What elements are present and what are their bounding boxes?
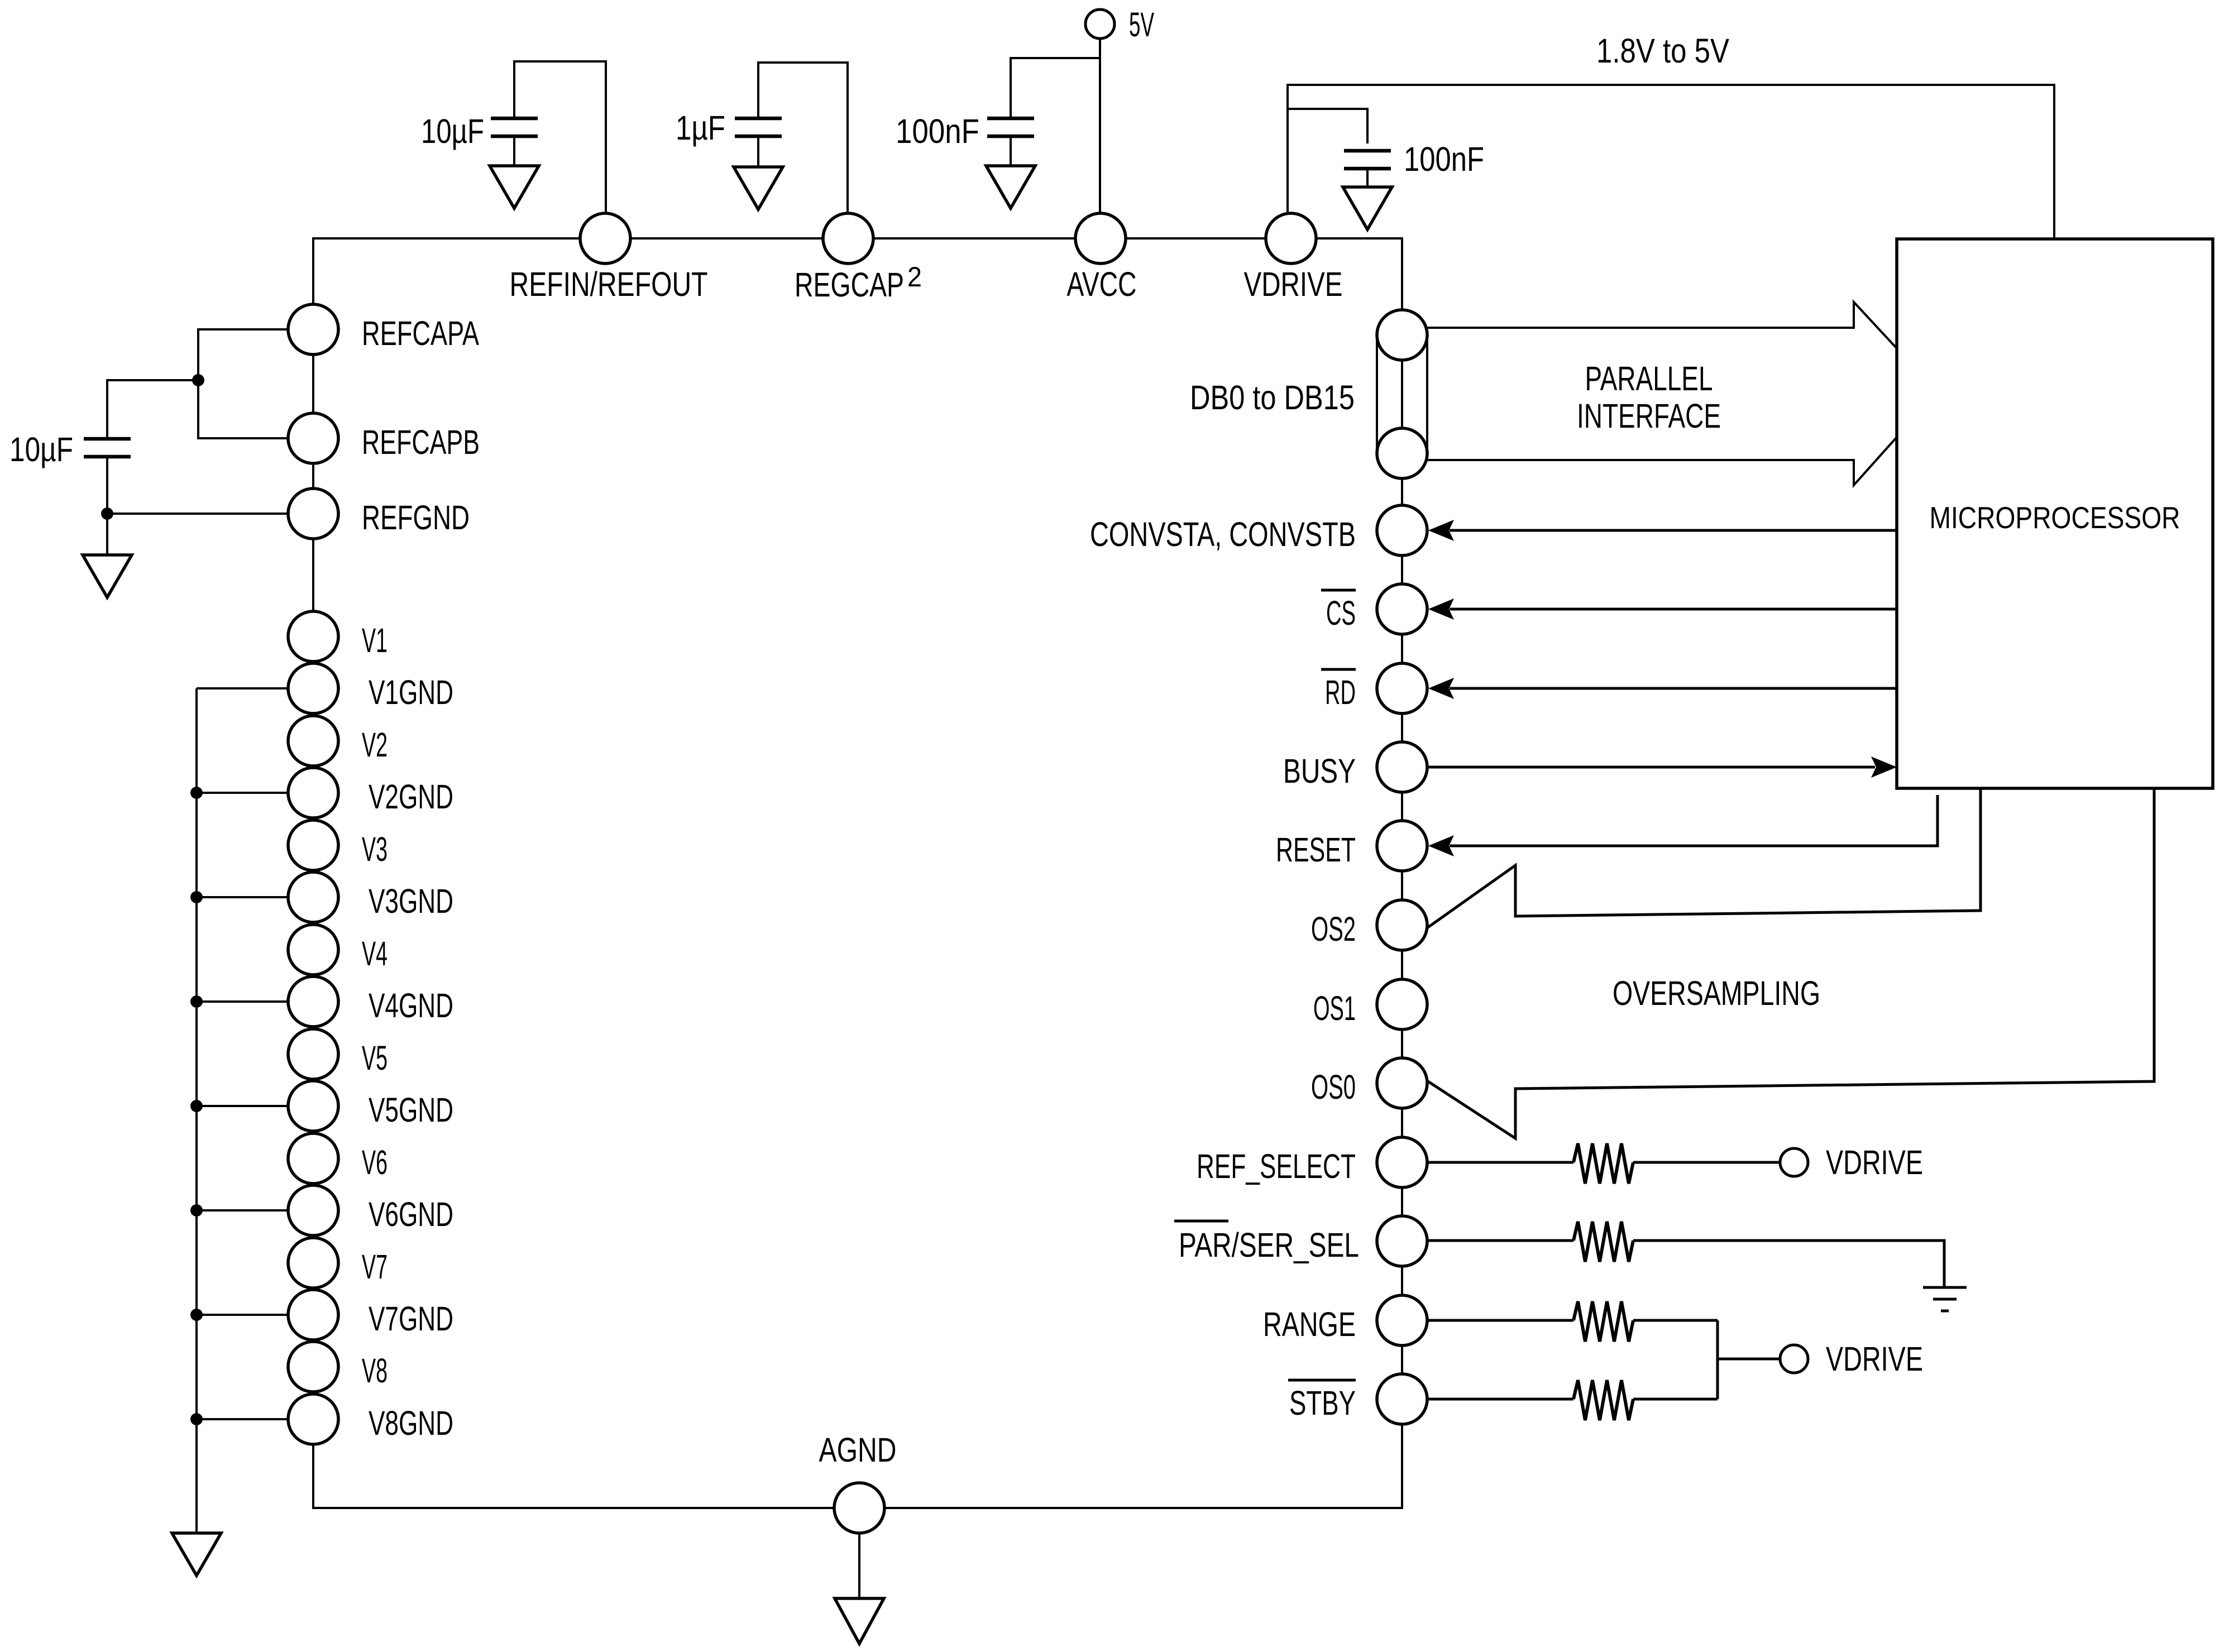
pin V6GND [288, 1185, 338, 1236]
ground (C2) [734, 167, 783, 209]
svg-text:V6GND: V6GND [369, 1195, 453, 1233]
pin DB0 [1377, 310, 1427, 360]
arrowhead RD [1428, 678, 1454, 699]
pin V3 [288, 820, 338, 870]
pin REFCAPB [288, 413, 338, 463]
svg-text:10µF: 10µF [9, 430, 73, 468]
wire DB bus right tangent [1426, 335, 1428, 453]
junction V3GND [190, 891, 203, 903]
capacitor C2 1uF (REGCAP) [735, 118, 782, 136]
wire CS line from microprocessor [1450, 608, 1897, 611]
svg-text:100nF: 100nF [1404, 140, 1484, 178]
wire V5GND stub [197, 1105, 288, 1107]
pin V1 [288, 611, 338, 662]
wire V8GND stub [197, 1418, 288, 1420]
pin DB15 [1377, 428, 1427, 478]
overline RD [1321, 668, 1356, 671]
pin V5 [288, 1029, 338, 1079]
pin RESET [1377, 821, 1427, 871]
svg-text:REFIN/REFOUT: REFIN/REFOUT [510, 265, 708, 303]
svg-text:VDRIVE: VDRIVE [1244, 265, 1343, 303]
wire joint to VDRIVE terminal [1718, 1358, 1780, 1361]
wire resistor to earth ground [1633, 1241, 1944, 1287]
pin OS0 [1377, 1058, 1427, 1108]
resistor R1 (REF_SELECT pullup) [1573, 1143, 1633, 1184]
IC outline (ADC body) [313, 238, 1402, 1508]
wire V6GND stub [197, 1209, 288, 1212]
ground (AGND) [835, 1598, 884, 1644]
wire VDRIVE 100nF cap branch [1288, 109, 1367, 143]
arrowhead BUSY (into microprocessor) [1871, 756, 1897, 778]
svg-text:V3: V3 [362, 830, 388, 868]
svg-text:RANGE: RANGE [1263, 1305, 1356, 1343]
pin V4GND [288, 976, 338, 1027]
svg-text:V2: V2 [362, 726, 388, 764]
arrowhead CONVSTA [1428, 520, 1454, 541]
svg-text:REF_SELECT: REF_SELECT [1197, 1147, 1356, 1185]
svg-text:V6: V6 [362, 1143, 388, 1181]
pin CONVSTA/CONVSTB [1377, 505, 1427, 556]
svg-text:REFCAPB: REFCAPB [362, 423, 480, 461]
svg-text:STBY: STBY [1289, 1384, 1356, 1422]
pin V3GND [288, 872, 338, 922]
ground (C4) [1343, 187, 1392, 229]
wire VxGND bus [195, 688, 198, 1533]
wire OS0 bus to microprocessor [1427, 788, 2154, 1138]
wire DB bus left tangent [1376, 335, 1378, 453]
wire REFCAPA to REFCAPB [198, 329, 288, 438]
pin REGCAP [823, 213, 873, 264]
svg-text:DB0 to DB15: DB0 to DB15 [1190, 379, 1355, 416]
junction (REFCAP network) [192, 374, 204, 386]
pin V7 [288, 1238, 338, 1288]
wire parallel-interface bus arrow bottom [1427, 437, 1897, 485]
pin V1GND [288, 663, 338, 714]
wire junction to 10uF refcap [107, 380, 198, 439]
svg-text:V1GND: V1GND [369, 673, 453, 711]
pin STBY [1377, 1374, 1427, 1424]
wire V3GND stub [197, 896, 288, 898]
svg-text:V2GND: V2GND [369, 778, 453, 816]
pin REFGND [288, 489, 338, 539]
wire V4GND stub [197, 1000, 288, 1003]
resistor R2 (PAR/SER_SEL pulldown) [1573, 1222, 1633, 1262]
pin V7GND [288, 1290, 338, 1340]
wire 100nF cap to ground [1010, 136, 1012, 166]
wire 5V supply to AVCC [1099, 39, 1101, 213]
pin CS [1377, 584, 1427, 634]
wire OS2 bus to microprocessor [1427, 788, 1981, 928]
pin V8 [288, 1342, 338, 1392]
pin RANGE [1377, 1295, 1427, 1345]
svg-text:1.8V to 5V: 1.8V to 5V [1596, 32, 1729, 70]
pin V6 [288, 1133, 338, 1184]
pin REFCAPA [288, 304, 338, 355]
pin AGND [834, 1483, 884, 1533]
svg-text:OS0: OS0 [1311, 1068, 1356, 1106]
wire 10uF cap to ground [513, 136, 515, 166]
capacitor C4 100nF (VDRIVE) [1344, 151, 1391, 169]
pin REF_SELECT [1377, 1137, 1427, 1187]
overline STBY [1288, 1379, 1356, 1382]
overline PAR [1174, 1220, 1228, 1223]
wire 1uF cap to ground [757, 136, 759, 167]
pin OS2 [1377, 900, 1427, 950]
svg-text:AGND: AGND [819, 1431, 897, 1469]
svg-text:5V: 5V [1129, 6, 1154, 44]
svg-text:10µF: 10µF [421, 112, 484, 150]
svg-text:V7: V7 [362, 1248, 388, 1286]
wire REFGND to ground [107, 514, 288, 555]
pin REFIN/REFOUT [580, 213, 630, 264]
terminal 5V [1085, 9, 1114, 39]
wire AGND to ground [858, 1533, 860, 1598]
wire RD line from microprocessor [1450, 687, 1897, 690]
svg-text:VDRIVE: VDRIVE [1826, 1143, 1923, 1181]
wire 100nF cap to 5V line [1011, 58, 1100, 118]
svg-text:RESET: RESET [1276, 831, 1356, 869]
svg-text:REFCAPA: REFCAPA [362, 314, 479, 352]
wire STBY resistor to joint [1633, 1398, 1718, 1401]
svg-text:VDRIVE: VDRIVE [1826, 1340, 1923, 1378]
pin V2GND [288, 768, 338, 818]
wire VDRIVE 100nF cap to ground [1366, 169, 1369, 187]
wire V7GND stub [197, 1314, 288, 1316]
wire RANGE/STBY joint vertical [1716, 1320, 1719, 1399]
wire CONVSTA line from microprocessor [1450, 529, 1897, 532]
junction (REFGND node) [101, 507, 113, 520]
pin OS1 [1377, 979, 1427, 1029]
wire V1GND stub [197, 687, 288, 689]
svg-text:V3GND: V3GND [369, 882, 453, 920]
capacitor C1 10uF (REFIN/REFOUT) [491, 118, 538, 136]
wire RANGE resistor to joint [1633, 1319, 1718, 1322]
wire 1uF cap to REGCAP [758, 63, 848, 213]
svg-text:PARALLEL: PARALLEL [1585, 360, 1713, 398]
junction V5GND [190, 1100, 203, 1112]
pin V4 [288, 925, 338, 975]
svg-text:V8: V8 [362, 1352, 388, 1390]
svg-text:2: 2 [907, 261, 922, 293]
resistor R3 (RANGE pullup) [1573, 1301, 1633, 1342]
wire BUSY line to microprocessor [1427, 766, 1875, 769]
ground (C3) [986, 166, 1035, 208]
svg-text:V4GND: V4GND [369, 987, 453, 1024]
wire VDRIVE to 1.8V-to-5V rail and microprocessor [1288, 85, 2054, 239]
wire parallel-interface bus arrow top [1427, 302, 1897, 348]
junction V4GND [190, 995, 203, 1008]
pin V5GND [288, 1081, 338, 1131]
svg-text:V4: V4 [362, 935, 388, 973]
svg-text:OS1: OS1 [1313, 989, 1356, 1027]
capacitor C5 10uF (REFCAP) [84, 439, 131, 457]
junction V2GND [190, 787, 203, 799]
svg-text:V5GND: V5GND [369, 1091, 453, 1129]
svg-text:INTERFACE: INTERFACE [1577, 397, 1721, 435]
svg-text:RD: RD [1325, 673, 1356, 711]
svg-text:CONVSTA, CONVSTB: CONVSTA, CONVSTB [1090, 515, 1356, 553]
junction V8GND [190, 1413, 203, 1425]
svg-text:REGCAP: REGCAP [795, 266, 904, 304]
svg-text:100nF: 100nF [896, 112, 979, 150]
pin V2 [288, 716, 338, 766]
terminal VDRIVE (RANGE/STBY) [1780, 1345, 1808, 1373]
svg-text:V7GND: V7GND [369, 1300, 453, 1338]
wire 10uF cap to REFIN/REFOUT [514, 61, 606, 213]
svg-text:PAR/SER_SEL: PAR/SER_SEL [1179, 1226, 1359, 1264]
wire PAR/SER_SEL to resistor [1427, 1239, 1573, 1242]
pin RD [1377, 663, 1427, 714]
pin AVCC [1075, 213, 1126, 264]
svg-text:REFGND: REFGND [362, 499, 470, 537]
junction V6GND [190, 1204, 203, 1217]
svg-text:V8GND: V8GND [369, 1404, 453, 1442]
pin PAR/SER_SEL [1377, 1216, 1427, 1266]
svg-text:V1: V1 [362, 621, 388, 659]
svg-text:MICROPROCESSOR: MICROPROCESSOR [1930, 500, 2180, 535]
junction V7GND [190, 1309, 203, 1321]
microprocessor box U2 [1897, 239, 2213, 788]
wire V2GND stub [197, 792, 288, 794]
resistor R4 (STBY pullup) [1573, 1380, 1633, 1420]
pin VDRIVE [1266, 213, 1316, 264]
pin V8GND [288, 1394, 338, 1444]
wire 10uF refcap to REFGND line [106, 457, 108, 514]
ground (C1) [490, 166, 539, 208]
wire RESET line from microprocessor [1450, 795, 1938, 846]
svg-text:OVERSAMPLING: OVERSAMPLING [1613, 974, 1820, 1012]
wire RANGE to resistor [1427, 1319, 1573, 1322]
arrowhead CS [1428, 598, 1454, 620]
pin BUSY [1377, 742, 1427, 792]
svg-text:CS: CS [1326, 594, 1356, 632]
overline CS [1321, 589, 1356, 592]
arrowhead RESET [1428, 835, 1454, 856]
wire REF_SELECT to resistor [1427, 1161, 1573, 1164]
earth ground (PAR/SER_SEL resistor) [1923, 1287, 1967, 1311]
ground (REFGND) [83, 555, 132, 597]
wire resistor to VDRIVE terminal [1633, 1161, 1780, 1164]
wire STBY to resistor [1427, 1398, 1573, 1401]
svg-text:AVCC: AVCC [1067, 265, 1137, 303]
svg-text:OS2: OS2 [1311, 910, 1356, 948]
terminal VDRIVE (REF_SELECT) [1780, 1148, 1808, 1176]
capacitor C3 100nF (AVCC) [987, 118, 1034, 136]
svg-text:1µF: 1µF [676, 109, 725, 147]
svg-text:V5: V5 [362, 1039, 388, 1077]
svg-text:BUSY: BUSY [1283, 752, 1356, 790]
ground (VxGND bus) [172, 1533, 221, 1576]
